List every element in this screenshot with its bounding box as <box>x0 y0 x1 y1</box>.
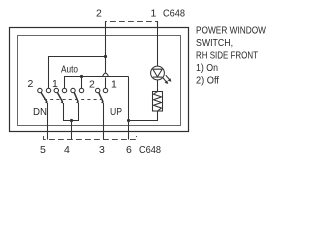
wire rail B (Auto rail) <box>65 77 129 89</box>
LED cathode bar <box>153 76 162 78</box>
wire blades 2+3 U link <box>64 103 79 121</box>
wire drop to contact 6 <box>81 77 83 89</box>
svg-text:2: 2 <box>96 8 102 20</box>
svg-text:1: 1 <box>151 8 157 20</box>
LED triangle <box>153 69 162 77</box>
LED arrow 2 <box>166 75 170 80</box>
resistor R1 box <box>153 92 163 112</box>
switch blade 2 <box>57 92 62 102</box>
wire pin6 vertical <box>128 77 130 140</box>
contact circle c8 <box>103 88 107 92</box>
outer box (switch assembly outline) <box>10 28 189 132</box>
wire resistor to pin6 wire <box>129 111 158 121</box>
svg-text:6: 6 <box>126 144 132 156</box>
svg-text:SWITCH,: SWITCH, <box>196 38 233 49</box>
svg-text:1) On: 1) On <box>196 63 218 74</box>
svg-text:2: 2 <box>28 78 34 90</box>
connector C648 top dashed line <box>106 22 158 27</box>
svg-text:UP: UP <box>110 106 122 118</box>
switch blade 4 (UP) <box>99 92 103 102</box>
svg-text:4: 4 <box>64 144 70 156</box>
contact circle c7 pivot UP <box>96 88 100 92</box>
switch blade 1 (DN) <box>41 92 47 102</box>
wire pin2 lower segment to contact <box>105 78 107 89</box>
switch blade 3 <box>74 92 78 102</box>
wire rail A (pin2 feed to left contact) <box>49 57 106 89</box>
wire LED to resistor <box>157 80 159 91</box>
junction dot U link <box>70 119 73 122</box>
wire pin2 vertical <box>105 22 107 73</box>
contact circle c2 <box>46 88 50 92</box>
svg-text:1: 1 <box>111 79 117 91</box>
svg-text:DN: DN <box>33 106 47 118</box>
contact circle c5 pivot <box>71 88 75 92</box>
contact circle c6 <box>79 88 83 92</box>
inner box <box>18 36 181 126</box>
LED D1 circle <box>151 66 165 80</box>
mechanical link dashed <box>44 99 103 101</box>
svg-text:2) Off: 2) Off <box>196 76 219 87</box>
wire blade1 to pin5 <box>47 103 49 140</box>
svg-text:RH SIDE FRONT: RH SIDE FRONT <box>196 51 258 62</box>
contact circle c4 <box>62 88 66 92</box>
contact circle c3 pivot <box>54 88 58 92</box>
resistor R1 zigzag <box>154 92 162 112</box>
svg-text:2: 2 <box>89 79 95 91</box>
svg-text:C648: C648 <box>163 8 185 20</box>
wire hop over Auto rail <box>103 73 109 76</box>
junction dot rail A / pin2 <box>104 55 107 58</box>
svg-text:POWER WINDOW: POWER WINDOW <box>196 26 266 37</box>
contact circle c1 pivot DN <box>38 88 42 92</box>
junction dot rail B <box>80 75 83 78</box>
connector C648 bottom dashed line <box>44 136 137 140</box>
svg-text:C648: C648 <box>139 144 161 156</box>
wire pin1 / LED feed vertical <box>157 22 159 67</box>
wire blade4 to pin3 <box>103 103 105 140</box>
wire U link to pin4 <box>71 121 73 140</box>
svg-text:5: 5 <box>40 144 46 156</box>
svg-text:1: 1 <box>52 78 58 90</box>
svg-text:Auto: Auto <box>61 65 78 76</box>
junction dot at pin6 wire <box>127 119 130 122</box>
LED arrow 1 <box>163 77 167 82</box>
svg-text:3: 3 <box>99 144 105 156</box>
